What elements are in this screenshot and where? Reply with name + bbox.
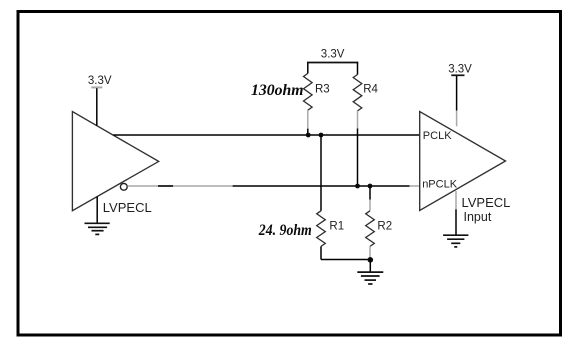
svg-text:LVPECL: LVPECL: [462, 195, 511, 210]
op-amp U1 LVPECL driver: [72, 112, 158, 211]
wire PCLK to R1: [320, 135, 322, 211]
resistor R2: [366, 186, 375, 258]
supply 3.3V rail (R3/R4): [307, 49, 358, 63]
svg-text:3.3V: 3.3V: [321, 49, 345, 61]
svg-text:24. 9ohm: 24. 9ohm: [258, 222, 312, 239]
svg-text:LVPECL: LVPECL: [103, 200, 152, 215]
resistor R4: [353, 63, 362, 129]
svg-text:R4: R4: [363, 84, 378, 96]
wire PCLK (non-inverting output to receiver): [113, 134, 419, 136]
svg-text:R1: R1: [329, 221, 344, 233]
ground (termination): [357, 260, 383, 284]
label LVPECL Input (receiver): [462, 195, 511, 224]
ground (driver): [85, 197, 110, 235]
supply 3.3V (receiver): [448, 63, 472, 126]
svg-text:3.3V: 3.3V: [88, 75, 112, 87]
wire bottom rail R1-R2: [321, 259, 370, 261]
svg-text:R3: R3: [315, 84, 330, 96]
svg-text:3.3V: 3.3V: [448, 63, 472, 75]
node junction dot R1-PCLK: [319, 133, 324, 138]
node junction dot R3-PCLK: [306, 133, 311, 138]
ground (receiver): [443, 191, 468, 247]
svg-text:R2: R2: [377, 221, 392, 233]
wire R4 to nPCLK: [357, 129, 359, 187]
svg-text:130ohm: 130ohm: [251, 82, 304, 99]
svg-text:PCLK: PCLK: [423, 130, 452, 142]
node junction dot R4-nPCLK: [355, 184, 360, 189]
inversion bubble (driver output): [120, 183, 127, 190]
resistor R3: [304, 63, 313, 136]
op-amp U2 LVPECL receiver: [420, 112, 506, 211]
svg-text:nPCLK: nPCLK: [422, 179, 458, 191]
wire nPCLK (inverting output to receiver): [127, 185, 419, 187]
supply 3.3V (driver): [88, 75, 112, 126]
node junction dot R2-nPCLK: [368, 184, 373, 189]
node junction dot rail-ground: [368, 257, 374, 263]
resistor R1: [317, 211, 326, 260]
svg-text:Input: Input: [464, 210, 492, 224]
